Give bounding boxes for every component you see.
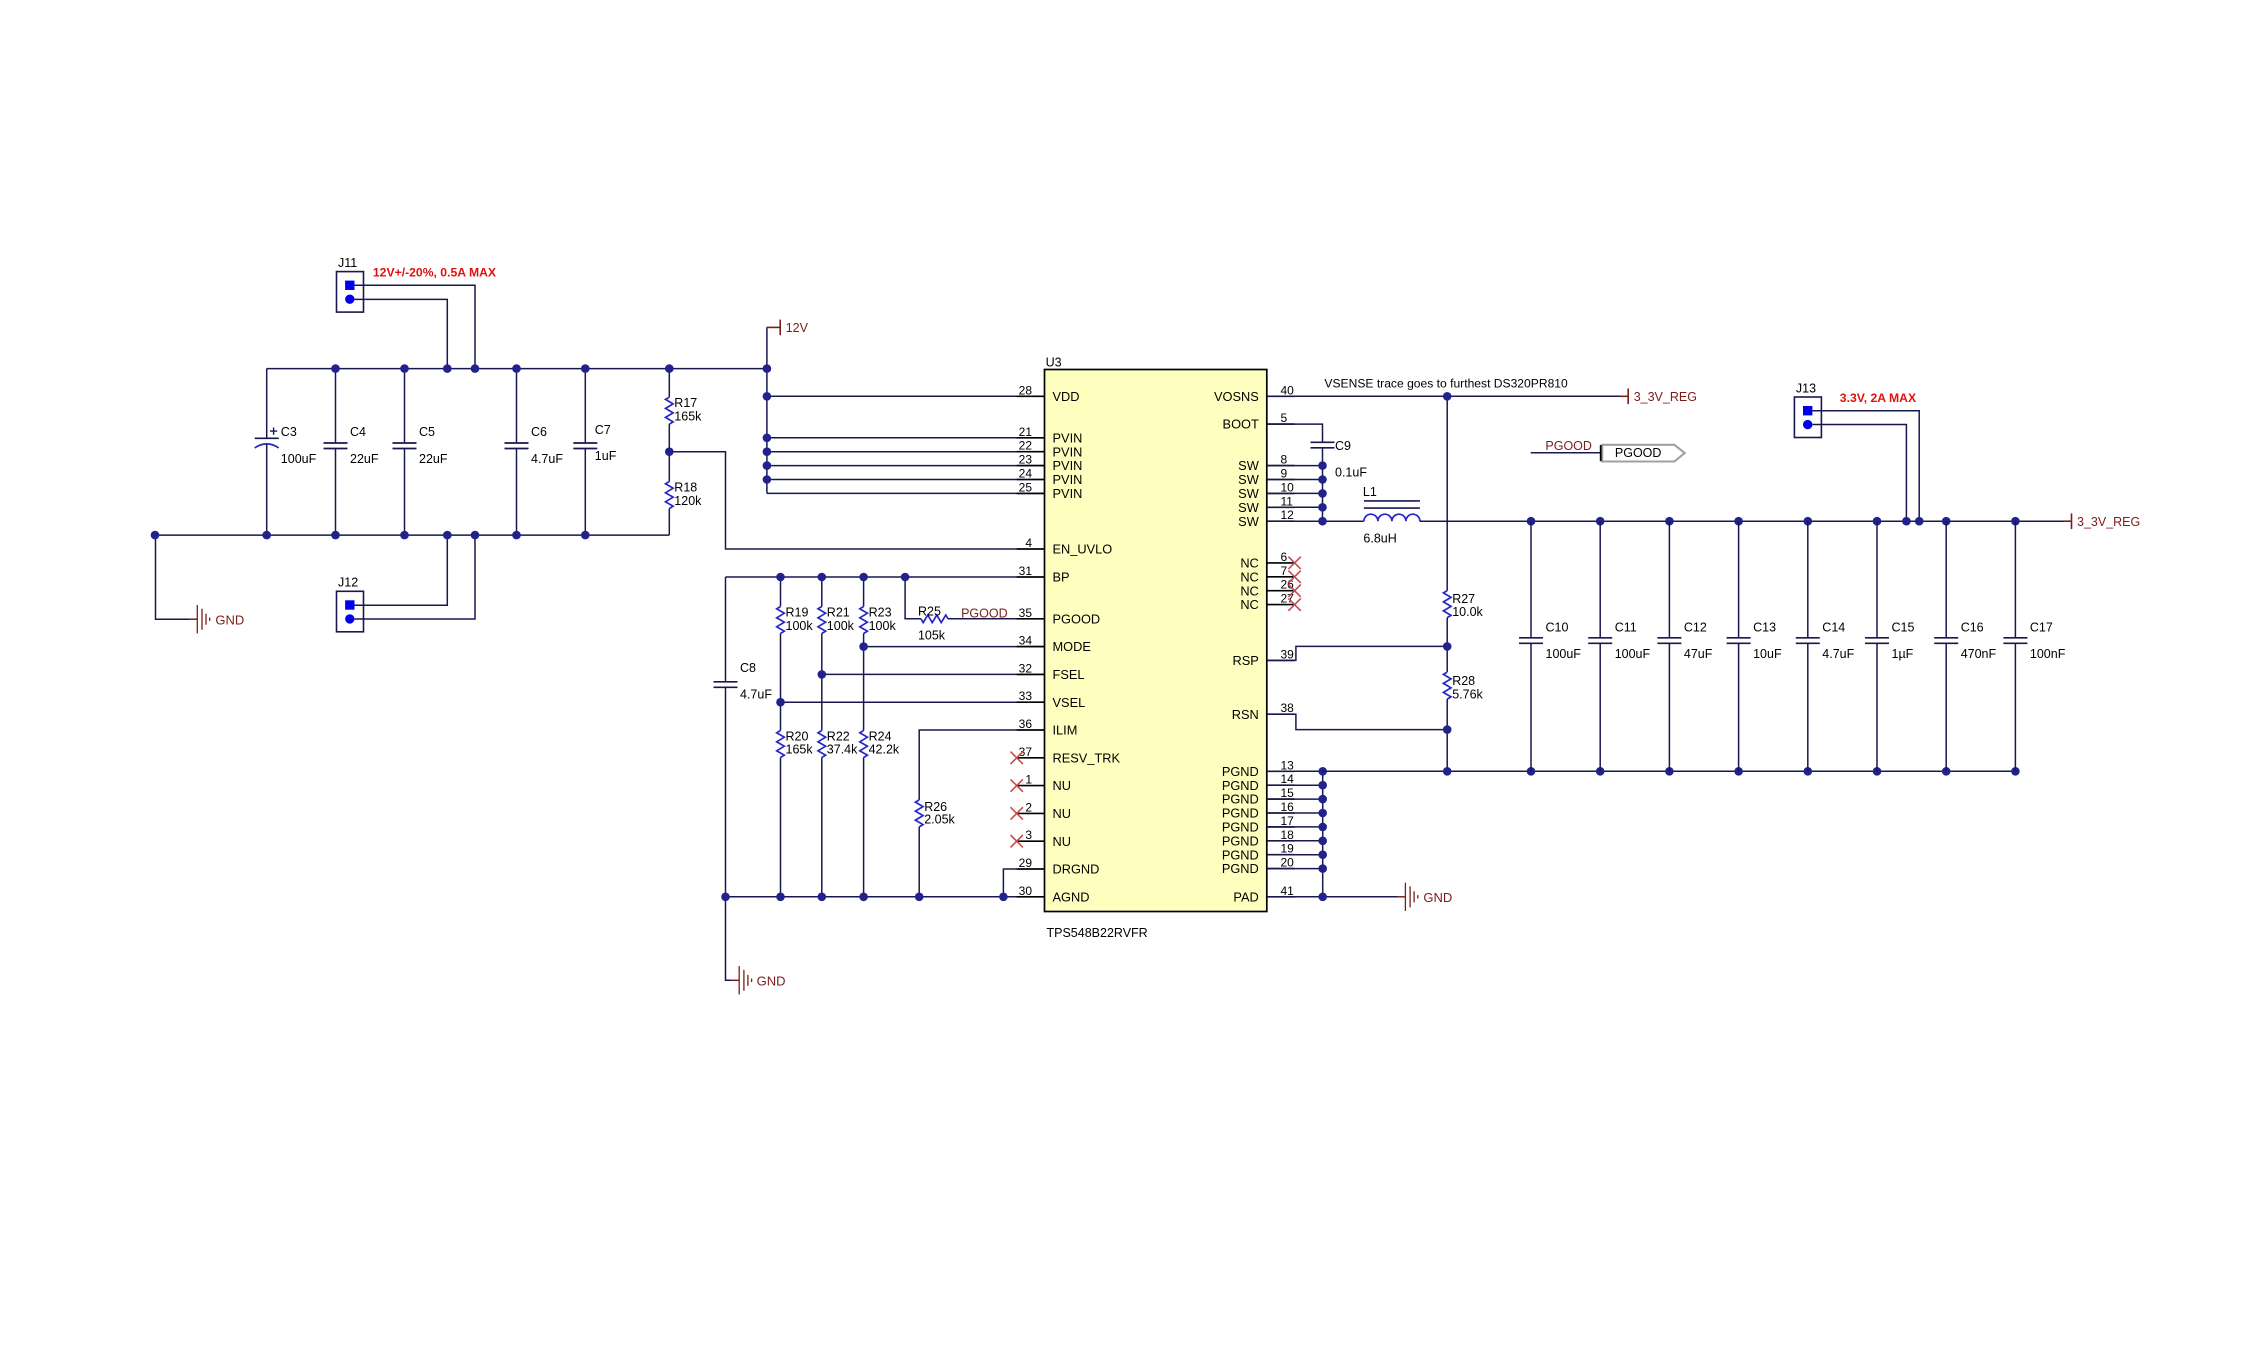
wire R24 link bbox=[863, 647, 865, 731]
svg-text:EN_UVLO: EN_UVLO bbox=[1053, 542, 1113, 557]
ground GND left bbox=[189, 605, 244, 633]
wire C6 top lead bbox=[516, 369, 518, 443]
svg-text:31: 31 bbox=[1019, 564, 1033, 578]
wire BP rail bbox=[726, 576, 1045, 578]
connector J13 bbox=[1794, 381, 1917, 437]
wire C10 bottom lead bbox=[1530, 643, 1532, 771]
resistor R28 bbox=[1443, 672, 1483, 701]
resistor R17 bbox=[666, 396, 703, 424]
svg-text:PVIN: PVIN bbox=[1053, 472, 1083, 487]
wire DRGND bbox=[1003, 869, 1044, 897]
svg-text:22uF: 22uF bbox=[419, 452, 448, 466]
wire C16 bottom lead bbox=[1945, 643, 1947, 771]
wire PGOOD to flag bbox=[1531, 452, 1601, 454]
wire PVIN pin 21 bbox=[767, 437, 1045, 439]
wire PGND pins column bbox=[1267, 771, 1323, 897]
resistor R23 bbox=[860, 606, 897, 634]
svg-text:TPS548B22RVFR: TPS548B22RVFR bbox=[1047, 926, 1148, 940]
resistor R20 bbox=[777, 730, 814, 758]
wire bottom GND drop bbox=[726, 897, 732, 981]
wire PAD bbox=[1267, 896, 1398, 898]
ground GND bottom bbox=[731, 966, 786, 994]
svg-text:RSP: RSP bbox=[1232, 653, 1258, 668]
svg-text:NC: NC bbox=[1240, 569, 1258, 584]
capacitor C11 bbox=[1588, 620, 1650, 661]
capacitor C17 bbox=[2003, 620, 2065, 661]
svg-text:23: 23 bbox=[1019, 453, 1033, 467]
svg-text:PGOOD: PGOOD bbox=[961, 606, 1008, 620]
svg-text:C7: C7 bbox=[595, 423, 611, 437]
wire 12V top bus bbox=[267, 368, 767, 370]
svg-text:NC: NC bbox=[1240, 597, 1258, 612]
wire VSEL bbox=[781, 701, 1045, 703]
resistor R17 top lead bbox=[668, 369, 670, 398]
wire C7 bottom lead bbox=[584, 449, 586, 536]
svg-text:C13: C13 bbox=[1753, 620, 1776, 634]
capacitor C6 bbox=[505, 425, 564, 466]
no-connect X marks NC pins bbox=[1288, 557, 1300, 611]
svg-text:NU: NU bbox=[1053, 778, 1071, 793]
capacitor C5 bbox=[393, 425, 448, 466]
svg-text:14: 14 bbox=[1281, 772, 1295, 786]
svg-text:C15: C15 bbox=[1892, 620, 1915, 634]
svg-text:120k: 120k bbox=[674, 494, 702, 508]
svg-text:5: 5 bbox=[1281, 411, 1288, 425]
svg-text:12V+/-20%, 0.5A MAX: 12V+/-20%, 0.5A MAX bbox=[373, 266, 497, 280]
svg-text:3_3V_REG: 3_3V_REG bbox=[2077, 515, 2140, 529]
resistor R24 bbox=[860, 730, 900, 758]
wire R25 feed bbox=[905, 577, 921, 619]
wire SW pins to C9 column bbox=[1267, 466, 1323, 508]
svg-text:21: 21 bbox=[1019, 425, 1033, 439]
svg-text:DRGND: DRGND bbox=[1053, 862, 1100, 877]
wire C4 bottom lead bbox=[335, 449, 337, 536]
wire MODE bbox=[864, 646, 1045, 648]
svg-text:8: 8 bbox=[1281, 453, 1288, 467]
svg-text:VSEL: VSEL bbox=[1053, 695, 1086, 710]
svg-text:R22: R22 bbox=[827, 730, 850, 744]
svg-text:38: 38 bbox=[1281, 701, 1295, 715]
junction dot VOSNS bbox=[1443, 392, 1452, 401]
svg-text:100k: 100k bbox=[869, 619, 897, 633]
svg-text:17: 17 bbox=[1281, 814, 1295, 828]
svg-text:33: 33 bbox=[1019, 689, 1033, 703]
offpage flag PGOOD bbox=[1601, 445, 1685, 462]
svg-text:C10: C10 bbox=[1546, 620, 1569, 634]
svg-text:R21: R21 bbox=[827, 606, 850, 620]
svg-text:47uF: 47uF bbox=[1684, 647, 1713, 661]
wire C13 bottom lead bbox=[1738, 643, 1740, 771]
wire EN_UVLO from divider bbox=[669, 452, 1044, 549]
svg-text:PGND: PGND bbox=[1222, 847, 1259, 862]
svg-text:R17: R17 bbox=[674, 396, 697, 410]
capacitor C12 bbox=[1657, 620, 1712, 661]
svg-text:NC: NC bbox=[1240, 556, 1258, 571]
capacitor C15 bbox=[1865, 620, 1914, 661]
svg-text:3.3V, 2A MAX: 3.3V, 2A MAX bbox=[1840, 391, 1917, 405]
svg-text:FSEL: FSEL bbox=[1053, 667, 1085, 682]
svg-text:SW: SW bbox=[1238, 500, 1260, 515]
svg-text:NU: NU bbox=[1053, 834, 1071, 849]
wire J13 pin1 to output bus bbox=[1813, 411, 1920, 522]
svg-text:32: 32 bbox=[1019, 661, 1033, 675]
svg-text:NU: NU bbox=[1053, 806, 1071, 821]
svg-text:C16: C16 bbox=[1961, 620, 1984, 634]
resistor R19 bbox=[777, 606, 814, 634]
svg-text:22: 22 bbox=[1019, 439, 1033, 453]
capacitor C3 bbox=[255, 369, 317, 535]
svg-text:41: 41 bbox=[1281, 884, 1295, 898]
wire R27 to RSP node bbox=[1446, 618, 1448, 672]
wire PVIN pin 24 bbox=[767, 479, 1045, 481]
svg-text:U3: U3 bbox=[1046, 356, 1062, 370]
svg-text:SW: SW bbox=[1238, 514, 1260, 529]
svg-text:PGND: PGND bbox=[1222, 764, 1259, 779]
wire J12 pin2 to GND bus bbox=[355, 535, 476, 619]
wire R28 to RSN node bbox=[1446, 699, 1448, 771]
svg-text:NC: NC bbox=[1240, 583, 1258, 598]
svg-text:SW: SW bbox=[1238, 472, 1260, 487]
svg-text:6: 6 bbox=[1281, 550, 1288, 564]
svg-text:GND: GND bbox=[1423, 890, 1452, 905]
wire J11 pin2 to 12V bus bbox=[355, 299, 448, 368]
svg-text:PGND: PGND bbox=[1222, 820, 1259, 835]
svg-text:100uF: 100uF bbox=[1546, 647, 1582, 661]
wire PGOOD net bbox=[948, 618, 1045, 620]
svg-text:J12: J12 bbox=[338, 576, 358, 590]
wire C4 top lead bbox=[335, 369, 337, 443]
wire VOSNS net bbox=[1267, 395, 1621, 397]
svg-text:100uF: 100uF bbox=[1615, 647, 1651, 661]
resistor R23 top lead bbox=[863, 577, 865, 607]
svg-text:40: 40 bbox=[1281, 383, 1295, 397]
wire C17 bottom lead bbox=[2014, 643, 2016, 771]
svg-text:PVIN: PVIN bbox=[1053, 458, 1083, 473]
IC U3 left pins with numbers bbox=[1017, 383, 1121, 904]
wire C13 top lead bbox=[1738, 521, 1740, 638]
svg-text:165k: 165k bbox=[786, 743, 814, 757]
power flag 12V bbox=[767, 320, 809, 336]
svg-text:C11: C11 bbox=[1615, 620, 1637, 634]
svg-text:R23: R23 bbox=[869, 606, 892, 620]
svg-text:12: 12 bbox=[1281, 508, 1295, 522]
junction dot R17-R18 node bbox=[665, 447, 674, 456]
resistor R25 bbox=[918, 605, 948, 643]
svg-text:29: 29 bbox=[1019, 856, 1033, 870]
svg-text:4: 4 bbox=[1025, 536, 1032, 550]
svg-text:PVIN: PVIN bbox=[1053, 444, 1083, 459]
svg-text:R19: R19 bbox=[786, 606, 809, 620]
wire C8 to AGND bus bbox=[725, 687, 727, 897]
svg-text:24: 24 bbox=[1019, 467, 1033, 481]
svg-text:16: 16 bbox=[1281, 800, 1295, 814]
wire C10 top lead bbox=[1530, 521, 1532, 638]
svg-text:C6: C6 bbox=[531, 425, 547, 439]
svg-text:2.05k: 2.05k bbox=[924, 813, 955, 827]
svg-text:470nF: 470nF bbox=[1961, 647, 1997, 661]
wire RSN bbox=[1267, 714, 1447, 729]
wire FSEL bbox=[822, 673, 1045, 675]
svg-text:RSN: RSN bbox=[1232, 707, 1259, 722]
junction dots feedback nodes bbox=[1443, 642, 1452, 734]
svg-text:PGOOD: PGOOD bbox=[1615, 446, 1662, 460]
power flag 3_3V_REG output bbox=[2064, 513, 2141, 529]
svg-text:J11: J11 bbox=[338, 256, 357, 270]
wire C12 top lead bbox=[1668, 521, 1670, 638]
svg-text:MODE: MODE bbox=[1053, 639, 1091, 654]
svg-text:PGND: PGND bbox=[1222, 833, 1259, 848]
svg-text:5.76k: 5.76k bbox=[1452, 688, 1483, 702]
wire C9 to SW bbox=[1322, 448, 1324, 521]
svg-text:PAD: PAD bbox=[1233, 889, 1258, 904]
wire C11 bottom lead bbox=[1599, 643, 1601, 771]
junction dots output bus bbox=[1527, 517, 2020, 526]
wire VDD bbox=[767, 395, 1045, 397]
svg-text:4.7uF: 4.7uF bbox=[740, 688, 772, 702]
svg-text:PGND: PGND bbox=[1222, 778, 1259, 793]
svg-text:100nF: 100nF bbox=[2030, 647, 2066, 661]
resistor R21 top lead bbox=[821, 577, 823, 607]
wire left GND drop bbox=[156, 535, 190, 619]
svg-text:9: 9 bbox=[1281, 467, 1288, 481]
wire R17-R18 node bbox=[668, 424, 670, 481]
wire C15 bottom lead bbox=[1876, 643, 1878, 771]
IC U3 body bbox=[1045, 356, 1267, 941]
wire R19 to VSEL node bbox=[780, 634, 782, 703]
svg-text:J13: J13 bbox=[1796, 381, 1816, 395]
wire R21 to FSEL node bbox=[821, 634, 823, 675]
resistor R26 bbox=[915, 800, 955, 827]
svg-text:4.7uF: 4.7uF bbox=[531, 452, 563, 466]
svg-text:7: 7 bbox=[1281, 564, 1288, 578]
wire GND bottom bus bbox=[155, 534, 669, 536]
wire J12 pin1 to GND bus bbox=[355, 535, 448, 605]
wire C11 top lead bbox=[1599, 521, 1601, 638]
svg-text:3_3V_REG: 3_3V_REG bbox=[1634, 390, 1697, 404]
junction dots 12V feed bbox=[763, 364, 772, 484]
svg-text:1: 1 bbox=[1025, 773, 1032, 787]
wire output ground bus bbox=[1323, 770, 2016, 772]
svg-text:0.1uF: 0.1uF bbox=[1335, 466, 1367, 480]
IC U3 right pins with numbers bbox=[1214, 383, 1295, 904]
svg-text:GND: GND bbox=[215, 612, 244, 627]
svg-text:R18: R18 bbox=[674, 481, 697, 495]
svg-text:20: 20 bbox=[1281, 856, 1295, 870]
svg-text:4.7uF: 4.7uF bbox=[1822, 647, 1854, 661]
svg-text:R27: R27 bbox=[1452, 592, 1475, 606]
wire VOSNS to feedback divider bbox=[1446, 396, 1448, 590]
svg-text:PVIN: PVIN bbox=[1053, 486, 1083, 501]
svg-text:PGOOD: PGOOD bbox=[1545, 439, 1592, 453]
svg-text:18: 18 bbox=[1281, 828, 1295, 842]
resistor R18 bottom lead bbox=[668, 509, 670, 536]
svg-text:34: 34 bbox=[1019, 634, 1033, 648]
svg-text:GND: GND bbox=[757, 974, 786, 989]
svg-text:R24: R24 bbox=[869, 730, 892, 744]
wire C6 bottom lead bbox=[516, 449, 518, 536]
svg-text:R20: R20 bbox=[786, 730, 809, 744]
svg-text:37: 37 bbox=[1019, 745, 1033, 759]
junction dots PGND column bbox=[1318, 767, 1327, 901]
svg-text:25: 25 bbox=[1019, 480, 1033, 494]
wire 12V feed vertical bbox=[766, 327, 768, 493]
svg-text:22uF: 22uF bbox=[350, 452, 379, 466]
svg-text:100k: 100k bbox=[827, 619, 855, 633]
svg-text:10: 10 bbox=[1281, 480, 1295, 494]
svg-text:R28: R28 bbox=[1452, 674, 1475, 688]
svg-text:105k: 105k bbox=[918, 629, 946, 643]
wire C5 top lead bbox=[404, 369, 406, 443]
svg-text:PGND: PGND bbox=[1222, 806, 1259, 821]
svg-text:VOSNS: VOSNS bbox=[1214, 389, 1259, 404]
svg-text:165k: 165k bbox=[674, 410, 702, 424]
junction dots BP rail bbox=[776, 573, 909, 582]
junction dots bottom bus bbox=[151, 531, 590, 540]
ground GND at PAD bbox=[1397, 883, 1452, 911]
svg-text:37.4k: 37.4k bbox=[827, 743, 858, 757]
wire AGND bus bbox=[726, 896, 1045, 898]
resistor R18 bbox=[666, 481, 703, 509]
svg-text:PGOOD: PGOOD bbox=[1053, 611, 1101, 626]
wire C14 top lead bbox=[1807, 521, 1809, 638]
wire SW12 to L1 bbox=[1267, 520, 1364, 522]
resistor R24 bottom lead bbox=[863, 758, 865, 897]
svg-text:ILIM: ILIM bbox=[1053, 723, 1078, 738]
resistor R19 top lead bbox=[780, 577, 782, 607]
svg-text:1uF: 1uF bbox=[595, 449, 617, 463]
resistor R26 bottom lead bbox=[918, 827, 920, 897]
svg-text:VSENSE trace goes to furthest: VSENSE trace goes to furthest DS320PR810 bbox=[1324, 377, 1568, 391]
svg-text:15: 15 bbox=[1281, 786, 1295, 800]
junction dots SW column bbox=[1318, 461, 1327, 525]
svg-text:19: 19 bbox=[1281, 842, 1295, 856]
wire PVIN pin 22 bbox=[767, 451, 1045, 453]
svg-text:28: 28 bbox=[1019, 383, 1033, 397]
junction dots top bus bbox=[331, 364, 673, 373]
connector J11 bbox=[337, 256, 497, 312]
svg-text:C8: C8 bbox=[740, 661, 756, 675]
capacitor C16 bbox=[1934, 620, 1996, 661]
wire C17 top lead bbox=[2014, 521, 2016, 638]
wire C7 top lead bbox=[584, 369, 586, 443]
capacitor C14 bbox=[1796, 620, 1855, 661]
capacitor C4 bbox=[324, 425, 379, 466]
wire J13 pin2 to output bus bbox=[1813, 425, 1907, 522]
wire C15 top lead bbox=[1876, 521, 1878, 638]
wire C12 bottom lead bbox=[1668, 643, 1670, 771]
connector J12 bbox=[337, 576, 364, 632]
wire PVIN pin 23 bbox=[767, 465, 1045, 467]
svg-text:11: 11 bbox=[1281, 494, 1294, 508]
svg-text:12V: 12V bbox=[786, 321, 809, 335]
svg-text:C9: C9 bbox=[1335, 439, 1351, 453]
svg-text:13: 13 bbox=[1281, 758, 1295, 772]
capacitor C10 bbox=[1519, 620, 1581, 661]
svg-text:C5: C5 bbox=[419, 425, 435, 439]
resistor R27 bbox=[1443, 591, 1483, 620]
wire ILIM bbox=[919, 730, 1044, 800]
wire J11 pin1 to 12V bus bbox=[355, 285, 476, 368]
junction dots AGND bus bbox=[721, 893, 1008, 902]
wire C8 column bbox=[725, 577, 727, 682]
wire C14 bottom lead bbox=[1807, 643, 1809, 771]
svg-text:SW: SW bbox=[1238, 458, 1260, 473]
svg-text:100k: 100k bbox=[786, 619, 814, 633]
svg-text:PGND: PGND bbox=[1222, 861, 1259, 876]
svg-text:36: 36 bbox=[1019, 717, 1033, 731]
svg-text:PGND: PGND bbox=[1222, 792, 1259, 807]
junction dots output ground bus bbox=[1443, 767, 2020, 776]
wire BOOT to C9 bbox=[1267, 424, 1323, 442]
resistor R22 bottom lead bbox=[821, 758, 823, 897]
svg-text:39: 39 bbox=[1281, 647, 1295, 661]
svg-text:AGND: AGND bbox=[1053, 889, 1090, 904]
no-connect X marks left pins bbox=[1011, 752, 1023, 848]
svg-text:3: 3 bbox=[1025, 828, 1032, 842]
resistor R22 bbox=[818, 730, 858, 758]
svg-text:100uF: 100uF bbox=[281, 452, 317, 466]
power flag 3_3V_REG at VOSNS bbox=[1620, 389, 1697, 405]
svg-text:L1: L1 bbox=[1363, 485, 1377, 499]
capacitor C9 bbox=[1311, 439, 1368, 480]
svg-text:35: 35 bbox=[1019, 606, 1033, 620]
wire R22 link bbox=[821, 674, 823, 730]
svg-text:1µF: 1µF bbox=[1892, 647, 1914, 661]
svg-text:6.8uH: 6.8uH bbox=[1363, 531, 1396, 545]
wire C5 bottom lead bbox=[404, 449, 406, 536]
svg-text:R25: R25 bbox=[918, 605, 941, 619]
wire C16 top lead bbox=[1945, 521, 1947, 638]
wire R23 to MODE node bbox=[863, 634, 865, 647]
capacitor C7 bbox=[573, 423, 616, 463]
svg-text:30: 30 bbox=[1019, 884, 1033, 898]
capacitor C8 bbox=[714, 661, 773, 702]
wire R20 link bbox=[780, 702, 782, 730]
svg-text:C12: C12 bbox=[1684, 620, 1707, 634]
wire PVIN pin 25 bbox=[767, 492, 1045, 494]
svg-text:C4: C4 bbox=[350, 425, 366, 439]
svg-text:C14: C14 bbox=[1822, 620, 1845, 634]
svg-text:10uF: 10uF bbox=[1753, 647, 1782, 661]
svg-text:42.2k: 42.2k bbox=[869, 743, 900, 757]
junction dots sel nodes bbox=[776, 642, 868, 706]
svg-text:SW: SW bbox=[1238, 486, 1260, 501]
svg-text:2: 2 bbox=[1025, 800, 1032, 814]
resistor R21 bbox=[818, 606, 855, 634]
resistor R20 bottom lead bbox=[780, 758, 782, 897]
svg-text:RESV_TRK: RESV_TRK bbox=[1053, 750, 1121, 765]
svg-text:PVIN: PVIN bbox=[1053, 430, 1083, 445]
svg-text:C3: C3 bbox=[281, 425, 297, 439]
wire RSP bbox=[1267, 646, 1447, 660]
svg-text:BP: BP bbox=[1053, 570, 1070, 585]
svg-text:C17: C17 bbox=[2030, 620, 2053, 634]
svg-text:10.0k: 10.0k bbox=[1452, 605, 1483, 619]
svg-text:BOOT: BOOT bbox=[1223, 417, 1259, 432]
wire output 3_3V_REG bus bbox=[1420, 520, 2064, 522]
capacitor C13 bbox=[1727, 620, 1782, 661]
svg-text:VDD: VDD bbox=[1053, 389, 1080, 404]
inductor L1 bbox=[1363, 485, 1420, 545]
